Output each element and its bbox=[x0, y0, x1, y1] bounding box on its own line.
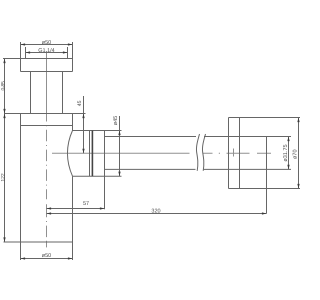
inlet tube left wall bbox=[30, 72, 32, 114]
svg-text:ø45: ø45 bbox=[113, 116, 119, 125]
connector nut right line with 57 extension bbox=[104, 131, 106, 210]
outlet connector bottom edge bbox=[73, 175, 122, 177]
outlet bell arc bbox=[67, 131, 72, 177]
arrow 320 left bbox=[47, 212, 52, 214]
wall rosette right edge bbox=[239, 118, 241, 189]
arrow ø31.75 bottom bbox=[287, 165, 289, 170]
outlet pipe bottom line right part bbox=[204, 168, 291, 170]
inlet tube right wall bbox=[62, 72, 64, 114]
arrow 122 top bbox=[3, 114, 5, 119]
arrow G1 1/4 left bbox=[26, 51, 31, 53]
arrow 45 bottom bbox=[82, 149, 84, 154]
vertical centerline lower dash-dot part bbox=[46, 110, 48, 247]
arrow ø50 bottom right bbox=[68, 257, 73, 259]
body top edge with extensions bbox=[5, 113, 86, 115]
pipe break squiggle right bbox=[202, 134, 205, 171]
arrow ø70 bottom bbox=[297, 184, 299, 189]
pipe break squiggle left bbox=[196, 134, 199, 171]
arrow ø70 top bbox=[297, 118, 299, 123]
arrow 122 bottom bbox=[3, 237, 5, 242]
connector nut thin line bbox=[89, 131, 91, 177]
extension line ø50 top left bbox=[20, 42, 22, 59]
body collar line bbox=[21, 125, 73, 127]
body bottom edge with left extension bbox=[4, 241, 73, 243]
arrow 0-85 bottom bbox=[3, 109, 5, 114]
svg-text:ø70: ø70 bbox=[293, 149, 299, 158]
outlet pipe top line right part bbox=[204, 136, 291, 138]
outlet pipe bottom line left part bbox=[105, 168, 196, 170]
pipe end edge with 320 extension bbox=[266, 137, 268, 214]
dim line ø50 (top) bbox=[21, 44, 73, 46]
body left wall bbox=[20, 114, 22, 243]
svg-text:122: 122 bbox=[0, 173, 6, 182]
svg-text:ø31.75: ø31.75 bbox=[283, 144, 289, 161]
top flange right edge bbox=[72, 59, 74, 72]
svg-text:G1 1/4: G1 1/4 bbox=[38, 48, 55, 54]
arrow ø50 bottom left bbox=[21, 257, 26, 259]
svg-text:57: 57 bbox=[83, 201, 89, 207]
arrow ø45 bottom bbox=[118, 172, 120, 177]
wall rosette left edge bbox=[228, 118, 230, 189]
horizontal centerline solid part bbox=[52, 152, 190, 154]
horizontal centerline right dash-dot part bbox=[203, 152, 272, 154]
body right wall upper bbox=[72, 114, 74, 131]
svg-text:0-85: 0-85 bbox=[0, 81, 6, 90]
svg-text:320: 320 bbox=[151, 209, 160, 215]
svg-text:ø50: ø50 bbox=[42, 40, 51, 46]
top flange bottom edge bbox=[21, 71, 73, 73]
svg-text:45: 45 bbox=[77, 100, 83, 106]
arrow 57 right bbox=[100, 207, 105, 209]
bottom dim extension right bbox=[72, 242, 74, 260]
body right wall lower bbox=[72, 176, 74, 242]
dim line ø70 bbox=[298, 118, 300, 189]
outlet pipe top line left part bbox=[105, 136, 197, 138]
rosette center mark bbox=[233, 149, 235, 157]
dim line G1 1/4 bbox=[26, 52, 68, 54]
arrow 320 right bbox=[262, 212, 267, 214]
top flange top edge with left extension bbox=[3, 58, 73, 60]
svg-text:ø50: ø50 bbox=[42, 253, 51, 259]
dim line ø45 vertical bbox=[119, 116, 121, 176]
dim line 57 bbox=[47, 208, 105, 210]
dim line 320 bbox=[47, 213, 267, 215]
extension line G1 1/4 right bbox=[67, 47, 69, 59]
dim line 45 vertical bbox=[83, 96, 85, 153]
wall rosette bottom edge with ø70 extension bbox=[229, 188, 301, 190]
arrow ø50 top right bbox=[68, 43, 73, 45]
arrow 57 left bbox=[47, 207, 52, 209]
arrow ø50 top left bbox=[21, 43, 26, 45]
arrow G1 1/4 right bbox=[63, 51, 68, 53]
arrow ø31.75 top bbox=[287, 137, 289, 142]
wall rosette top edge with ø70 extension bbox=[229, 117, 301, 119]
bottom dim extension left bbox=[20, 242, 22, 260]
vertical centerline upper solid part bbox=[46, 51, 48, 114]
top flange left edge bbox=[20, 59, 22, 72]
dim line ø31.75 bbox=[288, 137, 290, 170]
extension line ø50 top right bbox=[72, 42, 74, 59]
extension line G1 1/4 left bbox=[25, 47, 27, 59]
arrow 0-85 top bbox=[3, 59, 5, 64]
outlet connector top edge bbox=[73, 130, 122, 132]
arrow 45 top bbox=[82, 114, 84, 119]
dim line ø50 bottom bbox=[21, 258, 73, 260]
left dim line (0-85 and 122) bbox=[4, 59, 6, 243]
arrow ø45 top bbox=[118, 131, 120, 136]
connector nut thick line bbox=[91, 131, 93, 177]
